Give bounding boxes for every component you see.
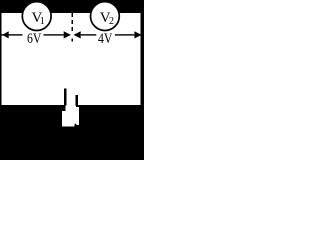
svg-text:1: 1 — [40, 16, 45, 27]
svg-text:2: 2 — [109, 16, 114, 27]
svg-text:6V: 6V — [27, 31, 42, 47]
svg-text:4V: 4V — [98, 31, 113, 47]
